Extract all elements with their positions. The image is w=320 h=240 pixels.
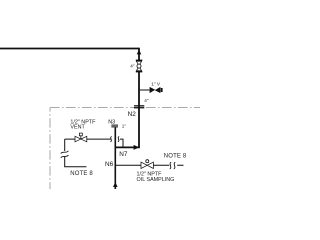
- wire main 4-inch riser vertical: [138, 48, 140, 148]
- valve 1-inch V solid gate valve: [150, 87, 161, 93]
- package boundary dash-dot vertical: [49, 108, 51, 189]
- valve oil sampling ball valve open bowtie: [141, 162, 153, 168]
- svg-text:N2: N2: [128, 111, 137, 118]
- flow arrow right into riser: [134, 145, 140, 150]
- svg-text:NOTE 8: NOTE 8: [164, 154, 187, 160]
- svg-text:1" V: 1" V: [151, 82, 161, 87]
- svg-text:N7: N7: [119, 151, 128, 158]
- svg-text:4": 4": [144, 98, 149, 103]
- svg-text:OIL SAMPLING: OIL SAMPLING: [137, 177, 175, 183]
- pipe break on vent drop: [61, 151, 69, 158]
- blind cap at valve end: [161, 88, 163, 92]
- valve ball valve 4-inch ball circle: [137, 64, 141, 68]
- valve vent needle valve open bowtie: [75, 136, 87, 142]
- svg-text:N6: N6: [105, 161, 114, 168]
- valve ball valve 4-inch body triangles: [136, 61, 141, 71]
- wire N3-N6 vertical line: [114, 127, 116, 189]
- pipe break right of N3 line: [118, 137, 119, 142]
- wire oil sampling line: [115, 164, 183, 166]
- valve oil sampling ball circle: [146, 160, 149, 163]
- valve vent stem and cap: [80, 136, 82, 139]
- valve ball valve 4-inch top flange bar: [136, 60, 143, 61]
- wire branch to 1-inch vent valve: [139, 89, 150, 91]
- svg-text:1": 1": [122, 123, 127, 128]
- package boundary dash-dot horizontal: [50, 107, 200, 109]
- flange N3 nozzle double bars: [111, 125, 118, 126]
- flange N2 nozzle double bars: [134, 105, 144, 106]
- wire N7 horizontal run: [115, 146, 140, 148]
- flow arrow up near bottom: [113, 182, 118, 187]
- pipe break double on sampling line: [170, 162, 176, 169]
- valve ball valve 4-inch bottom flange bar: [136, 71, 143, 72]
- wire main 4-inch process line horizontal: [0, 48, 139, 50]
- svg-text:VENT: VENT: [70, 124, 85, 130]
- svg-text:4": 4": [130, 63, 135, 68]
- wire 1-inch jog to N7: [120, 139, 123, 147]
- wire vent line horizontal: [65, 138, 111, 140]
- wire vent drop line left: [65, 139, 87, 167]
- svg-text:NOTE 8: NOTE 8: [70, 171, 93, 177]
- flow arrow up on riser: [137, 50, 142, 55]
- pipe break at vent line end: [110, 137, 111, 142]
